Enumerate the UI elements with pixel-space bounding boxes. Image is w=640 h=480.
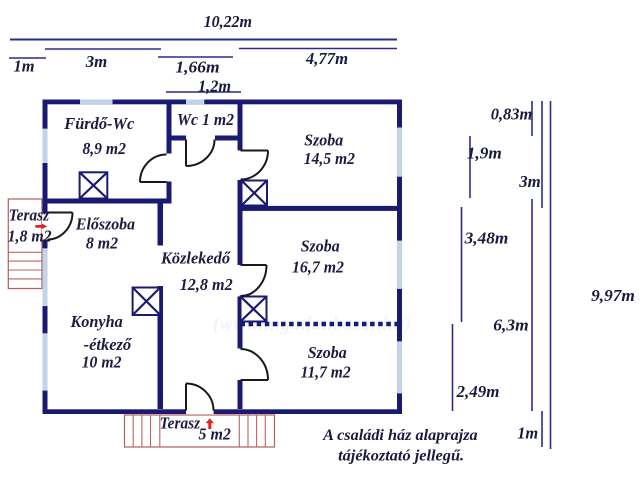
svg-text:4,77m: 4,77m [305,49,348,68]
door D6 Szoba 11,7 [241,349,269,380]
outer wall right [397,100,402,415]
terasz left red outline [8,199,42,289]
dimension line 1,66m [158,56,233,58]
right dimension line 3,48m [461,207,463,322]
terasz bottom steps [133,415,265,447]
door D7 Terasz [186,384,214,411]
svg-text:Közlekedő: Közlekedő [160,249,232,268]
dimension line 10,22m [10,39,397,41]
window left wall lower [43,333,48,390]
right dimension line 0,83m [531,101,533,136]
door opening Wc [186,135,215,141]
door opening Fürdő-Wc [166,154,172,182]
wall Szoba divider horizontal [242,206,400,211]
svg-text:Konyha: Konyha [69,312,122,331]
window top wall above Wc [186,100,204,105]
svg-text:Wc 1 m2: Wc 1 m2 [177,110,234,129]
svg-text:6,3m: 6,3m [493,316,529,335]
right dimension line 9,97m [550,101,552,449]
door D2 Wc [186,140,215,167]
svg-text:14,5 m2: 14,5 m2 [304,149,355,168]
door opening Szoba 14,5 [237,151,243,181]
svg-text:11,7 m2: 11,7 m2 [301,363,351,382]
svg-text:Fürdő-Wc: Fürdő-Wc [63,114,135,133]
svg-text:8 m2: 8 m2 [86,234,118,253]
dimension line 4,77m [239,48,397,50]
window right wall lower [397,341,402,393]
chimney X2 Konyha [133,288,161,316]
wall Fürdő-Wc / Előszoba [43,199,172,204]
door opening Szoba 16,7 [237,265,243,297]
svg-text:10,22m: 10,22m [204,12,253,31]
right dimension line 3m upper [541,101,543,208]
door D3 Fürdő-Wc [140,155,167,183]
svg-text:2,49m: 2,49m [456,382,500,401]
svg-text:10 m2: 10 m2 [82,352,122,371]
door opening Szoba 11,7 [237,349,243,381]
window right wall middle [397,241,402,289]
svg-text:Szoba: Szoba [304,131,343,150]
wall Wc bottom [167,136,243,141]
svg-text:Terasz: Terasz [9,206,50,225]
svg-text:9,97m: 9,97m [591,286,635,305]
outer wall left [43,100,48,415]
svg-text:Terasz: Terasz [160,413,201,432]
svg-text:12,8 m2: 12,8 m2 [180,275,233,294]
svg-text:Előszoba: Előszoba [75,214,135,233]
svg-text:1,9m: 1,9m [467,144,502,163]
outer wall bottom [43,409,403,414]
svg-text:0,83m: 0,83m [491,105,533,124]
svg-text:Szoba: Szoba [301,237,340,256]
wall Előszoba right spine [158,204,164,410]
door opening bottom wall [186,409,214,415]
chimney X4 Szoba 16,7 [241,297,267,322]
svg-text:A családi ház alaprajza: A családi ház alaprajza [322,425,477,444]
svg-text:1m: 1m [14,57,35,76]
dimension line 1,2m [166,91,241,93]
door D4 Szoba 14,5 [241,151,269,180]
svg-text:1,66m: 1,66m [175,58,219,77]
door D5 Szoba 16,7 [241,265,267,296]
svg-text:8,9 m2: 8,9 m2 [82,139,126,158]
right dimension line 6,3m [531,199,533,411]
window left wall middle [43,248,48,306]
terasz bottom red outline [125,415,275,447]
svg-text:tájékoztató jellegű.: tájékoztató jellegű. [338,446,464,465]
outer wall top [43,100,403,105]
arrow bottom terasz [206,418,214,429]
terasz left steps [8,252,42,279]
passage opening Előszoba-Közlekedő [157,246,164,287]
svg-text:-étkező: -étkező [84,335,133,354]
dimension line 1m [9,57,46,59]
right dimension line 1m lower [541,411,543,447]
chimney X3 Szoba 14,5 [242,181,268,206]
svg-text:3,48m: 3,48m [464,229,509,248]
svg-text:Szoba: Szoba [308,343,347,362]
right dimension line 2,49m [452,324,454,411]
door D1 Előszoba entry [48,213,73,240]
svg-text:1,8 m2: 1,8 m2 [8,227,52,246]
window left wall upper [43,129,48,163]
door opening left wall [42,214,48,240]
dimension line 3m [45,48,161,50]
window right wall upper [397,128,402,177]
window top wall left [80,100,113,105]
svg-text:1,2m: 1,2m [198,76,231,95]
wall Fürdő-Wc right / Wc left [167,104,172,204]
right dimension line 1,9m [469,136,471,198]
svg-text:1m: 1m [517,424,538,443]
svg-text:3m: 3m [85,52,108,71]
chimney X1 Fürdő-Wc [80,172,108,198]
svg-text:16,7 m2: 16,7 m2 [292,257,344,276]
arrow left terasz [35,223,47,229]
svg-text:3m: 3m [518,172,541,191]
wall dashed Szoba 16,7 / 11,7 [241,322,398,327]
svg-text:5 m2: 5 m2 [199,425,231,444]
wall central spine right [238,104,243,409]
